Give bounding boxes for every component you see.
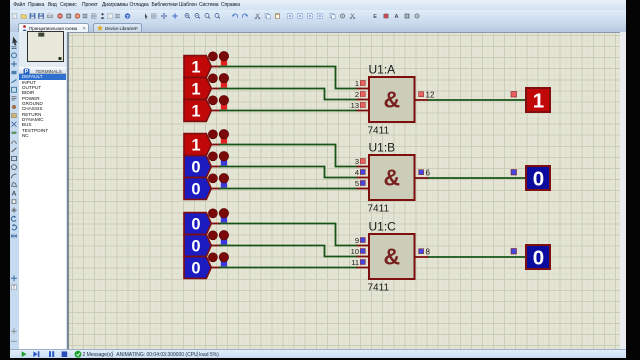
svg-text:U1:C: U1:C <box>369 220 397 234</box>
pin stub of LS2 <box>211 88 221 90</box>
wire LS2 to U1:A pin 2 <box>219 89 358 100</box>
logic probe output C value 0 <box>526 245 550 270</box>
svg-text:7411: 7411 <box>368 203 390 214</box>
logic state input LS1 value 1 <box>184 56 211 78</box>
wire U1:B pin 6 to output probe <box>428 177 526 179</box>
svg-text:0: 0 <box>191 215 200 233</box>
svg-text:&: & <box>383 165 400 191</box>
logic state input LS8 value 0 <box>184 235 211 257</box>
pin stub of LS7 <box>211 223 221 225</box>
svg-text:0: 0 <box>191 158 200 176</box>
svg-text:&: & <box>383 244 400 270</box>
logic probe output B value 0 <box>526 166 550 191</box>
logic state input LS7 value 0 <box>184 213 211 235</box>
logic state input LS5 value 0 <box>184 156 211 178</box>
pin state indicator 13 <box>360 103 365 108</box>
pin stub of LS5 <box>211 166 221 168</box>
gate input pin stub 10 <box>357 256 371 258</box>
gate input pin stub 2 <box>357 99 371 101</box>
pin stub of LS1 <box>211 66 221 68</box>
svg-text:U1:B: U1:B <box>369 141 396 155</box>
svg-text:6: 6 <box>426 169 431 178</box>
toggle button of LS9 <box>208 253 228 267</box>
wire U1:C pin 8 to output probe <box>428 256 526 258</box>
pin stub of LS8 <box>211 245 221 247</box>
svg-text:7411: 7411 <box>368 282 390 293</box>
gate input pin stub 13 <box>357 110 371 112</box>
svg-text:3: 3 <box>355 157 359 166</box>
logic probe output A value 1 <box>526 88 550 113</box>
gate output pin stub 8 <box>414 256 429 258</box>
pin stub of LS9 <box>211 267 221 269</box>
svg-text:0: 0 <box>191 259 200 277</box>
probe state indicator B <box>511 170 517 176</box>
pin stub of LS3 <box>211 110 221 112</box>
svg-text:U1:A: U1:A <box>369 63 396 77</box>
gate input pin stub 3 <box>357 166 371 168</box>
toggle button of LS4 <box>208 130 228 144</box>
wire LS1 to U1:A pin 1 <box>219 67 358 89</box>
3-input AND gate U1:C (7411) <box>369 234 415 279</box>
svg-text:8: 8 <box>426 248 431 257</box>
svg-text:1: 1 <box>533 90 544 113</box>
toggle button of LS2 <box>208 74 228 88</box>
pin state indicator 8 <box>419 249 424 254</box>
gate output pin stub 12 <box>414 99 429 101</box>
svg-text:13: 13 <box>351 101 359 110</box>
pin state indicator 6 <box>419 170 424 175</box>
svg-text:1: 1 <box>191 80 200 98</box>
wire LS5 to U1:B pin 4 <box>219 167 358 178</box>
wire LS3 to U1:A pin 13 <box>219 110 358 112</box>
wire LS8 to U1:C pin 10 <box>219 246 358 257</box>
gate input pin stub 9 <box>357 245 371 247</box>
svg-text:0: 0 <box>191 180 200 198</box>
svg-text:7411: 7411 <box>368 125 390 136</box>
svg-text:2: 2 <box>355 90 359 99</box>
svg-text:&: & <box>383 87 400 113</box>
pin state indicator 9 <box>360 238 365 243</box>
gate input pin stub 5 <box>357 188 371 190</box>
svg-text:9: 9 <box>355 236 359 245</box>
logic state input LS4 value 1 <box>184 134 211 156</box>
toggle button of LS5 <box>208 152 228 166</box>
3-input AND gate U1:B (7411) <box>369 155 415 200</box>
logic state input LS3 value 1 <box>184 100 211 122</box>
wire LS6 to U1:B pin 5 <box>219 188 358 190</box>
pin state indicator 4 <box>360 170 365 175</box>
gate input pin stub 11 <box>357 267 371 269</box>
svg-text:0: 0 <box>533 168 544 191</box>
wire U1:A pin 12 to output probe <box>428 99 526 101</box>
svg-text:0: 0 <box>191 237 200 255</box>
gate output pin stub 6 <box>414 177 429 179</box>
svg-text:10: 10 <box>351 247 359 256</box>
pin state indicator 1 <box>360 81 365 86</box>
svg-text:12: 12 <box>426 91 435 100</box>
svg-text:11: 11 <box>351 258 359 267</box>
toggle button of LS3 <box>208 96 228 110</box>
logic state input LS9 value 0 <box>184 257 211 279</box>
toggle button of LS8 <box>208 231 228 245</box>
pin state indicator 10 <box>360 249 365 254</box>
svg-text:1: 1 <box>191 136 200 154</box>
wire LS4 to U1:B pin 3 <box>219 145 358 167</box>
svg-text:1: 1 <box>355 79 359 88</box>
gate input pin stub 4 <box>357 177 371 179</box>
toggle button of LS7 <box>208 209 228 223</box>
3-input AND gate U1:A (7411) <box>369 77 415 122</box>
logic state input LS6 value 0 <box>184 178 211 200</box>
pin state indicator 3 <box>360 159 365 164</box>
wire LS9 to U1:C pin 11 <box>219 267 358 269</box>
svg-text:1: 1 <box>191 58 200 76</box>
svg-text:5: 5 <box>355 179 359 188</box>
svg-text:4: 4 <box>355 168 359 177</box>
probe state indicator C <box>511 249 517 255</box>
probe state indicator A <box>511 92 517 98</box>
svg-text:0: 0 <box>533 247 544 270</box>
wire LS7 to U1:C pin 9 <box>219 224 358 246</box>
pin state indicator 11 <box>360 260 365 265</box>
pin state indicator 2 <box>360 92 365 97</box>
svg-text:1: 1 <box>191 102 200 120</box>
gate input pin stub 1 <box>357 88 371 90</box>
pin stub of LS6 <box>211 188 221 190</box>
pin state indicator 5 <box>360 181 365 186</box>
toggle button of LS6 <box>208 174 228 188</box>
pin stub of LS4 <box>211 144 221 146</box>
logic state input LS2 value 1 <box>184 78 211 100</box>
toggle button of LS1 <box>208 52 228 66</box>
pin state indicator 12 <box>419 92 424 97</box>
